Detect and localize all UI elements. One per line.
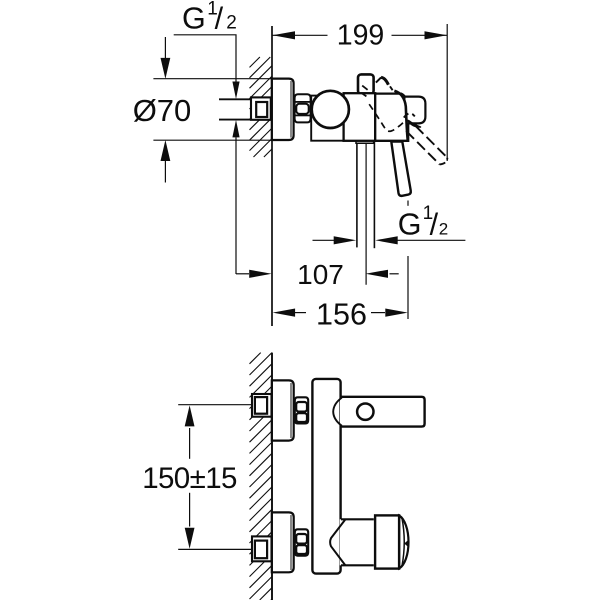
cartridge neck [340,519,374,565]
outlet thread right edge [373,141,375,248]
svg-text:107: 107 [297,259,344,290]
outlet collar [356,141,374,144]
dashed arc above chin [404,113,415,117]
cartridge end cap [399,516,408,569]
extension line upper connection [178,404,251,406]
svg-text:199: 199 [337,19,385,51]
label G 1/2 (lower right) [398,203,448,242]
wall hatching (upper wall section) [250,57,273,157]
dimension diam 70 [153,37,271,183]
diverter knob on top [358,74,374,94]
mixer body section 1 [344,93,376,141]
hex nut [295,94,311,122]
wall hatching (lower wall section) [250,353,273,600]
spout arm [340,397,425,427]
dimension G1/2 top: leader lines [174,35,236,274]
arm fillet arc [333,398,342,426]
outlet thread left edge [356,143,358,247]
raised handle dashed top edge [390,86,393,90]
raised lever rod dashed lower line [406,131,439,164]
upper wall union fitting [252,394,272,417]
lower escutcheon [272,512,294,572]
neck fillet arc [330,520,345,566]
wall face line (upper) [271,26,273,326]
svg-text:2: 2 [226,13,237,34]
dimension 150 plus-minus 15 [189,428,191,527]
svg-text:2: 2 [439,220,448,239]
dimension 107 [236,273,399,275]
dimension 156 [295,201,408,320]
escutcheon flange [272,79,294,140]
lower wall union fitting [252,536,272,561]
cartridge ring [375,515,399,568]
svg-text:156: 156 [316,298,367,332]
wall face line (lower) [271,353,273,600]
svg-text:G: G [398,208,422,242]
body corner curve [394,91,407,140]
raised handle peak (solid ticks) [376,77,381,82]
upper escutcheon [272,380,294,440]
raised lever rod dashed end cap [440,158,448,165]
dimension 199 [272,24,447,161]
outlet centerline [365,143,367,284]
wall union fitting [251,97,271,119]
raised handle dashed left edge [362,86,367,90]
extension line lower connection [178,548,251,550]
svg-text:/: / [215,2,224,36]
mixer body section 2 (cartridge housing) [375,94,408,141]
lever pivot cap [406,97,426,124]
cap screw mark [404,540,409,548]
label G1/2 lower: outlet thread dimension [313,239,335,241]
mixer body (front view) [312,379,340,574]
lever handle (solid, down position) [391,142,411,196]
ball joint housing [311,96,343,141]
svg-text:/: / [430,208,439,242]
raised lever rod dashed upper line [416,126,448,158]
svg-text:G: G [182,2,206,36]
svg-text:150±15: 150±15 [142,462,237,495]
label G 1/2 (top left) [182,0,237,36]
ball joint sphere [312,91,349,128]
lever attachment chin [407,120,421,127]
arm hole [357,404,373,420]
svg-text:Ø70: Ø70 [133,93,192,128]
supply pipe stub behind wall [219,99,252,119]
lower hex nut [295,529,308,555]
upper hex nut [295,397,308,423]
